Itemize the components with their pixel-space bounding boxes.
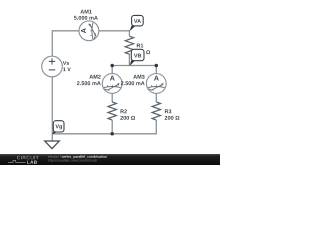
watermark line 1 username <box>48 155 61 158</box>
wire: R2 bottom to bottom rail <box>111 120 113 134</box>
wire: top rail left segment <box>52 30 79 32</box>
wire: top rail right segment <box>99 30 129 32</box>
label R1 name <box>137 44 144 48</box>
logo CIRCUIT <box>17 156 20 159</box>
voltage source Vs <box>42 56 63 77</box>
node label VA <box>130 15 144 31</box>
wire: left rail upper (corner to Vs) <box>51 30 53 56</box>
ammeter AM3 <box>146 74 166 94</box>
wire: ground stem <box>51 134 53 141</box>
resistor R3 <box>152 102 160 120</box>
label AM3 value 2.500 mA <box>121 81 145 85</box>
wire: R3 bottom to bottom rail corner <box>155 120 157 134</box>
wire: AM2 top drop <box>111 66 113 74</box>
label AM1 name <box>80 10 91 14</box>
label R3 name <box>165 109 171 113</box>
junction dot node B / AM2 <box>110 64 114 68</box>
label R3 value 200 ohm <box>165 116 180 120</box>
junction dot node B / AM3 <box>155 64 159 68</box>
label AM1 value 5.000 mA <box>74 16 98 20</box>
wire: left rail lower (Vs to bottom node) <box>51 77 53 134</box>
logo LAB <box>27 161 29 164</box>
logo waveform <box>8 161 26 163</box>
wire: AM3 bottom to R3 top <box>155 93 157 102</box>
resistor R2 <box>108 102 116 120</box>
wire: R1 bottom to node B <box>128 54 130 66</box>
wire: AM3 top drop <box>155 66 157 74</box>
ground <box>45 141 60 149</box>
label R2 value 200 ohm <box>120 116 135 120</box>
ammeter AM1 <box>79 21 99 41</box>
wire: AM2 bottom to R2 top <box>111 93 113 102</box>
wire: bottom rail <box>52 133 157 135</box>
junction dot bottom rail / R2 <box>110 132 114 136</box>
node label Vg <box>52 121 64 135</box>
node label VB <box>130 49 145 66</box>
wire: right rail corner to R1 top <box>128 30 130 36</box>
watermark line 1 circuit name <box>62 155 107 158</box>
watermark line 2 url <box>48 159 96 162</box>
label AM2 name <box>89 75 100 79</box>
label R2 name <box>121 109 127 113</box>
ammeter AM2 <box>102 74 122 94</box>
resistor R1 <box>125 36 133 54</box>
label AM2 value 2.500 mA <box>77 81 101 85</box>
label AM3 name <box>133 75 144 79</box>
wire: branch top horizontal <box>112 65 156 67</box>
label Vs name <box>63 61 69 65</box>
label Vs value 1 V <box>63 68 71 72</box>
label R1 value 100 ohm (partly hidden by VB) <box>136 50 151 54</box>
watermark bar <box>0 154 220 165</box>
